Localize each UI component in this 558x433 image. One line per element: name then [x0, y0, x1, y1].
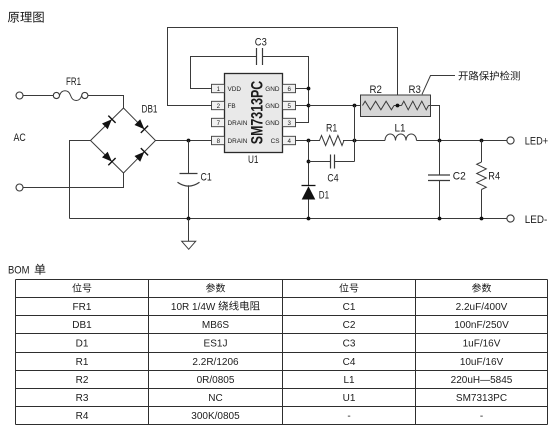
open protection callout leader [422, 76, 455, 95]
svg-text:1: 1 [217, 86, 221, 93]
wire pin4 CS to R1 [296, 140, 321, 142]
junction R4 top [480, 139, 484, 143]
AC input terminal bottom [16, 184, 23, 191]
svg-text:R4: R4 [76, 411, 89, 422]
svg-text:L1: L1 [343, 375, 355, 386]
svg-text:GND: GND [265, 120, 280, 127]
svg-text:8: 8 [217, 138, 221, 145]
svg-text:-: - [347, 411, 350, 422]
IC U1 pin 2 box (FB) [212, 101, 236, 110]
junction C2 bottom [438, 217, 442, 221]
svg-text:U1: U1 [248, 154, 259, 166]
diode D1 [302, 141, 316, 219]
wire AC bottom to bridge bottom [23, 173, 124, 188]
svg-text:C2: C2 [453, 171, 466, 183]
wire C3 right down to pin3 GND [263, 57, 309, 123]
open-circuit protection box around R2 R3 [361, 95, 431, 117]
fuse FR1 [53, 91, 88, 101]
svg-text:SM7313PC: SM7313PC [249, 80, 267, 144]
wire L1 to LED+ [417, 140, 508, 142]
wire output bus vertical [354, 106, 356, 162]
svg-text:SM7313PC: SM7313PC [456, 393, 507, 404]
svg-text:DRAIN: DRAIN [228, 138, 248, 145]
svg-text:3: 3 [287, 120, 291, 127]
junction D1 bottom [307, 217, 311, 221]
wire bridge left vertex down to bottom rail [70, 141, 91, 219]
IC U1 pin 5 box (GND) [265, 101, 295, 110]
bridge diode upper-left [102, 119, 112, 129]
junction output bus / R1 [353, 139, 357, 143]
label 开路保护检测 [459, 71, 520, 81]
svg-text:C1: C1 [343, 302, 356, 313]
BOM row R4 [76, 411, 484, 422]
IC U1 pin 3 box (GND) [265, 118, 295, 127]
AC input terminal top [16, 92, 23, 99]
svg-text:U1: U1 [343, 393, 356, 404]
schematic title 原理图 [8, 12, 44, 23]
svg-text:DB1: DB1 [72, 320, 92, 331]
IC U1 pin 7 box (DRAIN) [212, 118, 248, 127]
svg-text:2: 2 [217, 103, 221, 110]
BOM row D1 [76, 339, 501, 350]
junction node C1 top [187, 139, 191, 143]
svg-text:2.2uF/400V: 2.2uF/400V [456, 302, 508, 313]
svg-text:FR1: FR1 [66, 76, 81, 88]
wire pin2 FB loop to R2/R3 midpoint [168, 28, 398, 106]
svg-text:GND: GND [265, 103, 280, 110]
svg-text:R3: R3 [409, 84, 421, 96]
svg-text:C1: C1 [201, 172, 212, 184]
junction pin5 [307, 104, 311, 108]
capacitor C1 electrolytic [178, 141, 200, 219]
resistor R1 [320, 136, 345, 146]
ground symbol [182, 219, 196, 250]
BOM row FR1 [73, 301, 508, 313]
BOM row R1 [76, 357, 504, 368]
capacitor C2 [428, 141, 450, 219]
wire pin5 GND to gnd bus [296, 105, 309, 107]
junction D1 top [307, 139, 311, 143]
svg-text:R2: R2 [370, 84, 382, 96]
svg-text:BOM: BOM [8, 265, 30, 277]
capacitor C4 [309, 155, 355, 169]
svg-text:CS: CS [271, 138, 280, 145]
BOM row DB1 [72, 320, 509, 331]
LED- terminal [507, 215, 514, 222]
svg-text:FR1: FR1 [73, 302, 92, 313]
svg-text:7: 7 [217, 120, 221, 127]
svg-text:R2: R2 [76, 375, 89, 386]
svg-text:1uF/16V: 1uF/16V [463, 339, 501, 350]
svg-text:L1: L1 [395, 123, 406, 135]
svg-text:300K/0805: 300K/0805 [191, 411, 240, 422]
junction R2/R3 feedback node [396, 104, 400, 108]
BOM table header [72, 283, 491, 292]
svg-text:100nF/250V: 100nF/250V [454, 320, 509, 331]
junction C4 branch [307, 160, 311, 164]
BOM row R3 [76, 393, 507, 404]
inductor L1 [385, 134, 417, 141]
IC U1 pin 4 box (CS) [271, 136, 296, 145]
wire R1 to L1 [343, 140, 385, 142]
junction R4 bottom [480, 217, 484, 221]
resistor R4 [477, 141, 487, 219]
svg-text:2.2R/1206: 2.2R/1206 [192, 357, 239, 368]
svg-text:R3: R3 [76, 393, 89, 404]
svg-text:C3: C3 [343, 339, 356, 350]
wire gnd bus to R2 [309, 105, 363, 107]
svg-text:ES1J: ES1J [204, 339, 228, 350]
svg-text:D1: D1 [76, 339, 89, 350]
svg-text:10R 1/4W: 10R 1/4W [171, 302, 216, 313]
wire AC top to fuse [23, 95, 53, 97]
junction node output bus [353, 104, 357, 108]
svg-text:-: - [480, 411, 483, 422]
svg-text:0R/0805: 0R/0805 [197, 375, 235, 386]
svg-text:VDD: VDD [228, 86, 242, 93]
junction C2 top [438, 139, 442, 143]
capacitor C3 [257, 48, 263, 65]
resistor R2 [363, 101, 395, 110]
svg-text:DRAIN: DRAIN [228, 120, 248, 127]
BOM table grid [16, 280, 548, 425]
svg-text:4: 4 [287, 138, 291, 145]
bridge diode lower-right [135, 152, 145, 162]
op-amp / controller IC U1 SM7313PC body [225, 74, 283, 153]
svg-text:C3: C3 [255, 37, 267, 49]
svg-text:220uH—5845: 220uH—5845 [451, 375, 513, 386]
svg-text:10uF/16V: 10uF/16V [460, 357, 504, 368]
svg-text:NC: NC [208, 393, 222, 404]
wire fuse to bridge top [88, 96, 124, 109]
svg-text:AC: AC [14, 132, 26, 144]
svg-text:LED-: LED- [525, 214, 548, 226]
svg-text:LED+: LED+ [525, 136, 548, 148]
wire bridge right vertex to IC pin 8 [156, 140, 213, 142]
IC U1 pin 6 box (GND) [265, 84, 295, 93]
junction C1 bottom [187, 217, 191, 221]
IC U1 pin 8 box (DRAIN) [212, 136, 248, 145]
svg-text:C4: C4 [343, 357, 356, 368]
svg-text:DB1: DB1 [142, 104, 158, 116]
svg-text:6: 6 [287, 86, 291, 93]
BOM row R2 [76, 375, 513, 386]
bridge diode upper-right [135, 119, 145, 129]
IC U1 pin 1 box (VDD) [212, 84, 242, 93]
resistor R3 [402, 101, 429, 110]
svg-text:R1: R1 [326, 123, 337, 135]
svg-text:D1: D1 [319, 190, 329, 202]
wire bottom rail [70, 218, 508, 220]
bridge rectifier DB1 diamond [91, 108, 156, 173]
svg-text:C2: C2 [343, 320, 356, 331]
svg-text:GND: GND [265, 86, 280, 93]
BOM heading [8, 264, 45, 277]
wire R2 to junction [394, 105, 402, 107]
svg-text:C4: C4 [327, 173, 338, 185]
wire pin6 GND to gnd bus [296, 88, 309, 90]
LED+ terminal [507, 137, 514, 144]
junction pin6 [307, 87, 311, 91]
svg-text:R1: R1 [76, 357, 89, 368]
wire pin1 VDD to C3 left [191, 57, 257, 89]
svg-text:R4: R4 [488, 171, 500, 183]
svg-text:FB: FB [228, 103, 236, 110]
svg-text:5: 5 [287, 103, 291, 110]
bridge diode lower-left [102, 152, 112, 162]
svg-text:MB6S: MB6S [202, 320, 230, 331]
wire R3 to C2 drop [429, 106, 440, 141]
